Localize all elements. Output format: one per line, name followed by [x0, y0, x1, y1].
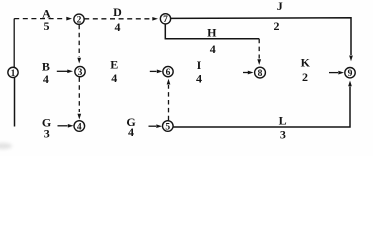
svg-text:4: 4 [115, 20, 121, 34]
node 5 [163, 121, 174, 133]
activity H wire (from node 7 down and right) [165, 24, 259, 39]
svg-text:E: E [110, 57, 118, 71]
node 1 [8, 67, 18, 79]
node 7 [160, 14, 170, 26]
dummy 5-6 arrowhead [167, 79, 171, 85]
dummy 3-4 arrowhead [77, 114, 81, 120]
dummy 3-4 dashed wire [78, 77, 80, 112]
svg-text:2: 2 [302, 70, 308, 84]
activity A dashed wire [14, 18, 65, 20]
svg-text:5: 5 [165, 122, 170, 132]
svg-text:4: 4 [196, 71, 202, 85]
activity I arrow [243, 71, 254, 75]
activity L arrowhead [348, 81, 352, 87]
svg-text:3: 3 [280, 127, 286, 141]
activity L wire (node 5 right, corner, up) [173, 87, 350, 128]
svg-text:4: 4 [111, 71, 117, 85]
svg-text:J: J [277, 0, 283, 13]
svg-text:3: 3 [78, 68, 83, 78]
activity J arrowhead [349, 56, 353, 62]
svg-text:H: H [207, 26, 217, 40]
svg-text:L: L [279, 114, 287, 128]
svg-text:2: 2 [274, 19, 280, 33]
svg-text:K: K [301, 56, 311, 70]
activity J wire (node 7 right, corner, down) [171, 18, 351, 55]
activity D dashed wire [84, 18, 151, 20]
activity B arrow [57, 69, 73, 73]
activity G arrow into node 4 [58, 124, 74, 128]
dummy 5-6 dashed wire [168, 85, 170, 120]
activity H dashed drop [258, 39, 260, 59]
svg-text:D: D [113, 5, 122, 19]
svg-text:9: 9 [348, 69, 353, 79]
activity K arrow [329, 71, 344, 75]
svg-text:3: 3 [44, 127, 50, 141]
activity D arrowhead [152, 17, 158, 21]
svg-text:6: 6 [166, 68, 171, 78]
activity A arrowhead [66, 17, 72, 21]
svg-text:7: 7 [163, 15, 168, 25]
node 6 [163, 66, 173, 78]
dummy 2-3 arrowhead [77, 58, 81, 64]
activity A tail wire (vertical from node 1 up) [13, 19, 15, 68]
svg-text:I: I [197, 58, 202, 72]
node 9 [345, 68, 355, 80]
node 3 [75, 66, 85, 78]
node 8 [255, 67, 266, 79]
activity H arrowhead [257, 59, 261, 65]
svg-text:4: 4 [43, 72, 49, 86]
svg-text:4: 4 [128, 125, 134, 139]
svg-text:4: 4 [210, 42, 216, 56]
svg-text:4: 4 [77, 122, 82, 132]
activity E arrow [150, 70, 163, 74]
scan smudge bottom-left [0, 143, 12, 149]
dummy 2-3 dashed wire [78, 25, 80, 57]
node 2 [74, 14, 84, 26]
node 4 [74, 121, 85, 133]
svg-text:2: 2 [77, 16, 82, 26]
svg-text:8: 8 [258, 69, 263, 79]
activity G arrow into node 5 [149, 124, 163, 128]
svg-text:1: 1 [11, 69, 16, 79]
wire from node 1 down [14, 77, 16, 126]
svg-text:5: 5 [44, 19, 50, 33]
